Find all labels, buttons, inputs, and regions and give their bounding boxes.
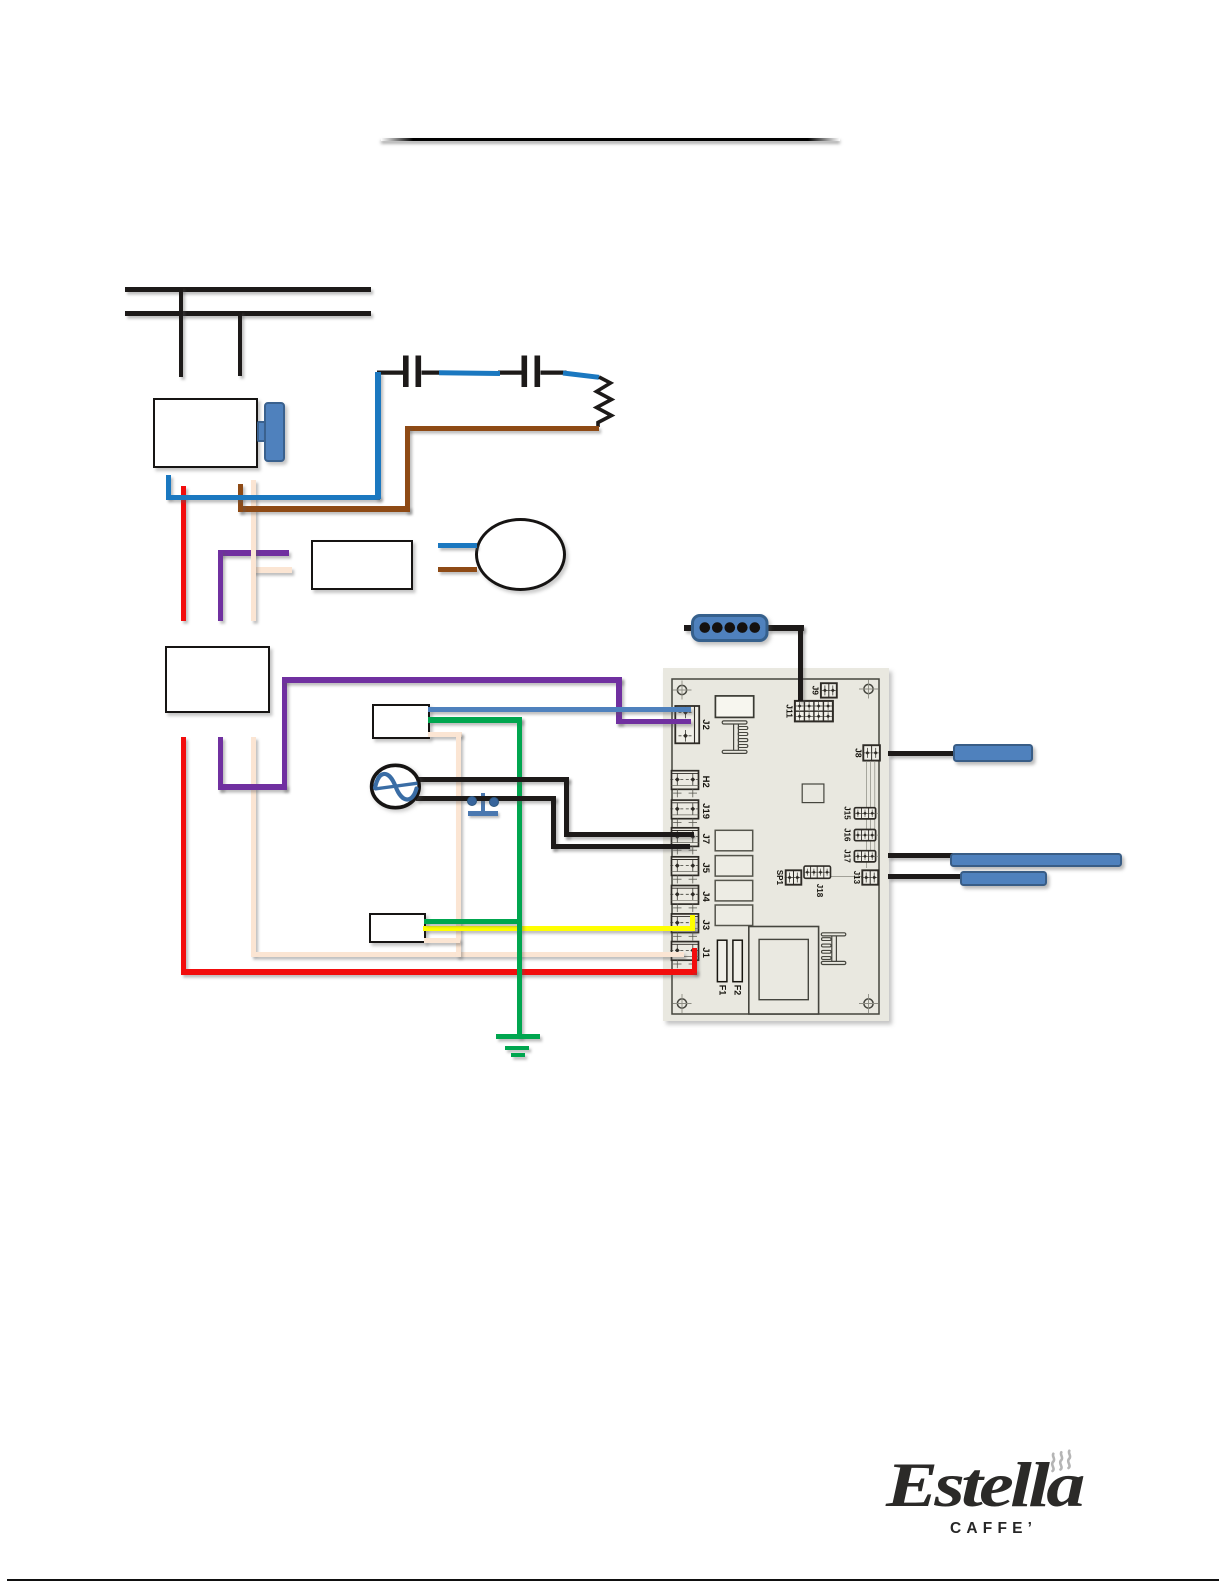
svg-text:F1: F1 <box>717 985 727 996</box>
svg-text:J5: J5 <box>700 863 711 874</box>
svg-text:J1: J1 <box>700 947 711 958</box>
svg-text:J8: J8 <box>854 748 864 758</box>
svg-text:H2: H2 <box>700 776 711 788</box>
svg-text:J19: J19 <box>700 803 711 819</box>
svg-text:J11: J11 <box>784 704 794 718</box>
svg-text:F2: F2 <box>733 985 743 996</box>
svg-text:J16: J16 <box>842 828 851 842</box>
svg-text:J2: J2 <box>700 719 711 730</box>
svg-text:SP1: SP1 <box>775 870 784 886</box>
svg-text:J9: J9 <box>810 686 820 696</box>
svg-text:J18: J18 <box>815 884 824 898</box>
svg-text:J4: J4 <box>700 891 711 902</box>
svg-text:J17: J17 <box>842 849 851 863</box>
svg-text:J3: J3 <box>700 920 711 931</box>
svg-text:J15: J15 <box>842 806 851 820</box>
svg-text:J13: J13 <box>852 871 861 885</box>
svg-text:J7: J7 <box>700 834 711 845</box>
